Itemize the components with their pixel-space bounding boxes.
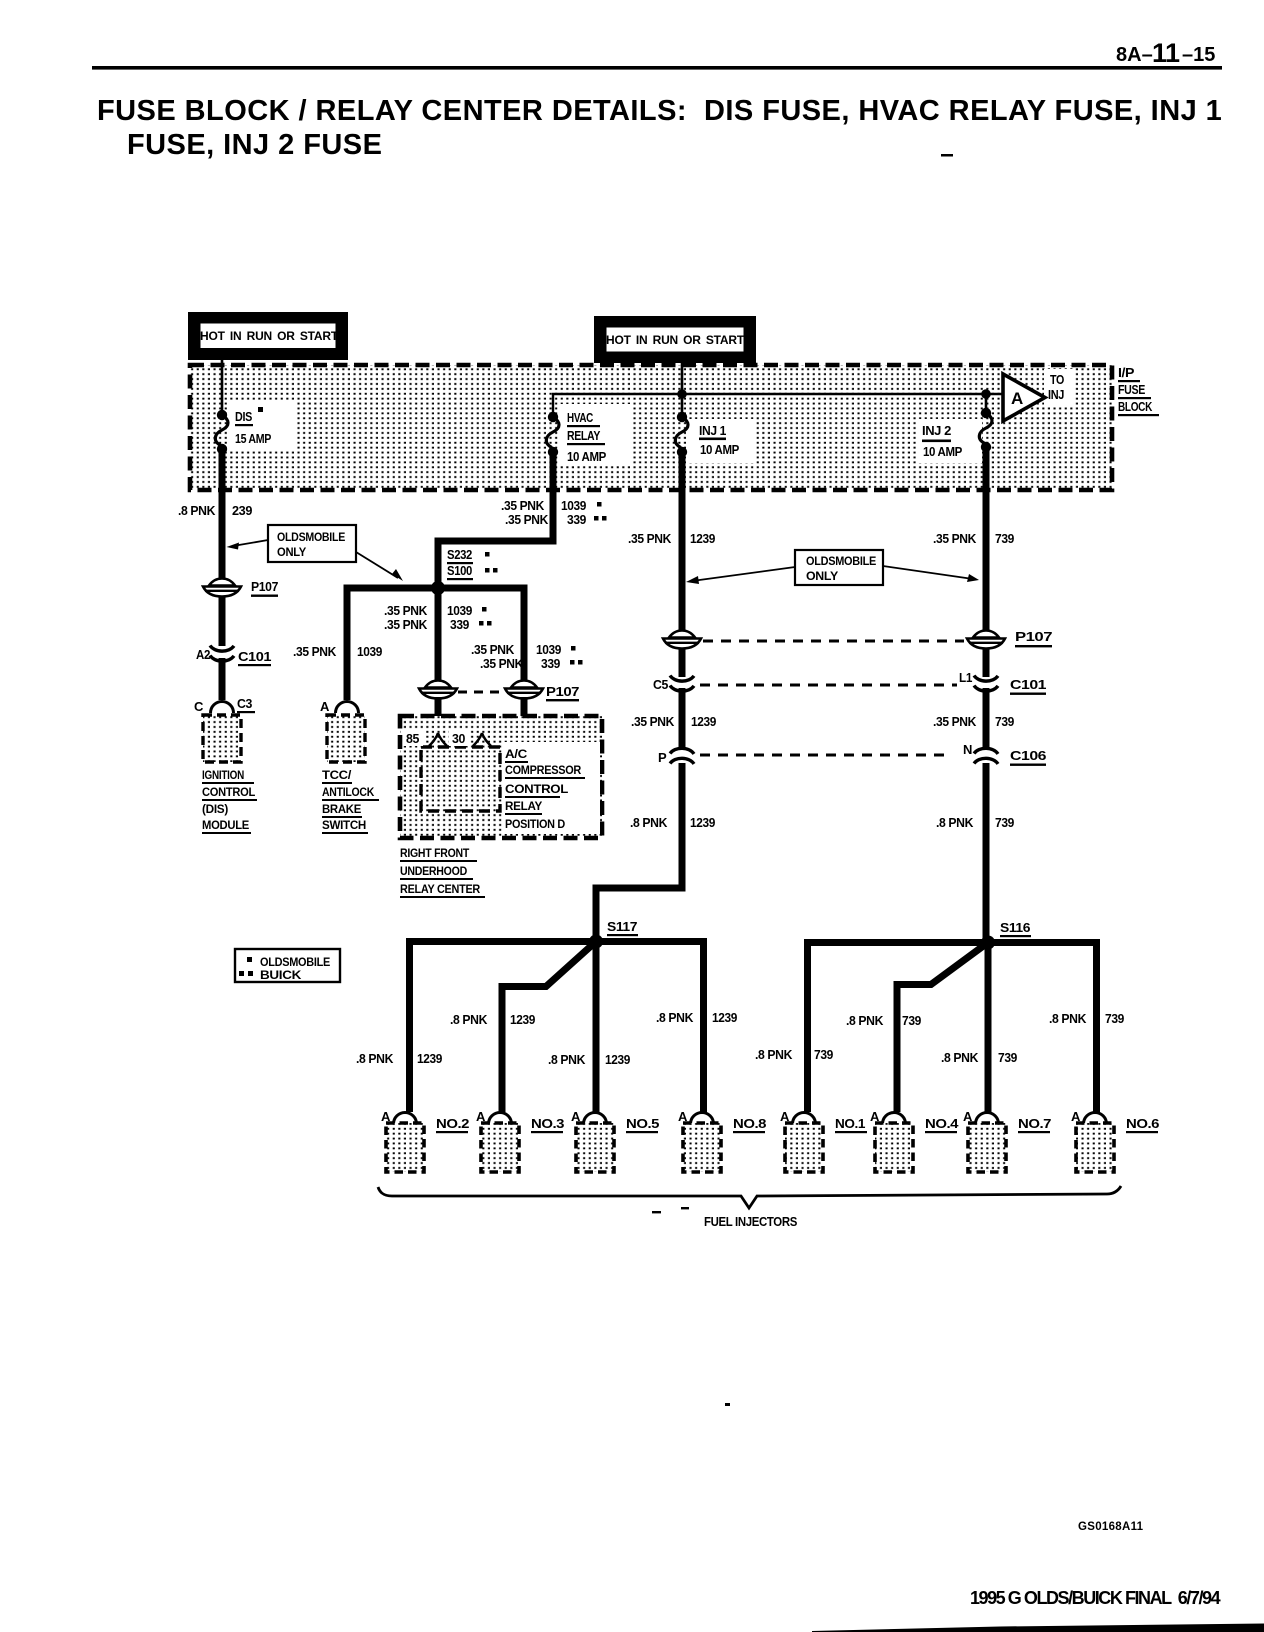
svg-text:1239: 1239 xyxy=(690,815,715,830)
svg-text:IGNITION: IGNITION xyxy=(202,768,244,782)
svg-text:739: 739 xyxy=(1105,1011,1124,1026)
svg-text:.8 PNK: .8 PNK xyxy=(630,815,668,830)
svg-text:A: A xyxy=(320,699,330,714)
injector no.6 xyxy=(1071,1109,1159,1172)
wire: INJ1 drop from hot box xyxy=(681,363,684,417)
wire: INJ1 C106 down with elbow to S117 xyxy=(596,763,682,938)
wire: S117 down to injector no.5 xyxy=(593,942,600,1113)
pin 85 fork xyxy=(403,729,447,746)
svg-text:10 AMP: 10 AMP xyxy=(700,442,740,457)
fuel injectors brace xyxy=(378,1186,1121,1229)
wire: INJ1 main wire xyxy=(679,452,686,646)
svg-text:A: A xyxy=(1011,389,1023,408)
svg-text:NO.4: NO.4 xyxy=(925,1116,959,1131)
svg-text:.35 PNK: .35 PNK xyxy=(480,656,524,671)
svg-text:TCC/: TCC/ xyxy=(322,768,352,782)
label I/P FUSE BLOCK xyxy=(1118,365,1159,416)
svg-text:P: P xyxy=(658,750,667,765)
legend oldsmobile/buick xyxy=(235,949,340,982)
svg-text:10 AMP: 10 AMP xyxy=(923,444,963,459)
wire: feed line from HVAC to triangle xyxy=(553,394,1003,416)
speck under title xyxy=(941,154,953,157)
svg-text:ANTILOCK: ANTILOCK xyxy=(322,785,375,799)
wire: S116 diagonal to injector no.4 xyxy=(897,943,988,1113)
svg-text:10 AMP: 10 AMP xyxy=(567,449,607,464)
svg-text:SWITCH: SWITCH xyxy=(322,818,366,832)
hot in run or start box left xyxy=(188,312,348,360)
svg-text:1239: 1239 xyxy=(417,1051,442,1066)
svg-text:INJ 2: INJ 2 xyxy=(922,423,951,438)
svg-text:I/P: I/P xyxy=(1118,365,1135,380)
P107 grommet row xyxy=(663,629,1052,649)
svg-text:1039: 1039 xyxy=(447,603,472,618)
svg-text:RIGHT FRONT: RIGHT FRONT xyxy=(400,846,470,860)
wire: grommet to pin 85 xyxy=(435,697,442,733)
wire: bus to injector no.1 xyxy=(804,943,811,1113)
svg-text:P107: P107 xyxy=(546,684,579,699)
svg-text:739: 739 xyxy=(995,714,1014,729)
injector no.1 xyxy=(780,1109,867,1172)
A/C relay text xyxy=(502,742,600,834)
wire: DIS drop from hot box xyxy=(221,360,224,415)
wire: HVAC wire below box with elbow to splice xyxy=(438,452,553,588)
wire: DIS wire C101 to module xyxy=(219,658,226,700)
label .8 PNK 1239 (no.5) xyxy=(548,1052,630,1067)
P107 grommet on DIS wire xyxy=(203,579,278,597)
svg-text:1995 G OLDS/BUICK FINAL 6/7/9: 1995 G OLDS/BUICK FINAL 6/7/94 xyxy=(970,1588,1221,1608)
ignition control module box xyxy=(202,715,257,834)
svg-text:1039: 1039 xyxy=(561,498,586,513)
label .8 PNK 1239 (INJ1 lower) xyxy=(630,815,715,830)
svg-text:C5: C5 xyxy=(653,677,668,692)
svg-text:A/C: A/C xyxy=(505,747,528,761)
white patches behind fuse labels xyxy=(228,402,294,450)
svg-text:.8 PNK: .8 PNK xyxy=(941,1050,979,1065)
wire: INJ1 P107 to C101 xyxy=(679,648,686,677)
hot in run or start box right xyxy=(594,316,756,363)
svg-text:UNDERHOOD: UNDERHOOD xyxy=(400,864,468,878)
label .35 PNK 1239 (INJ1 top) xyxy=(628,531,715,546)
wire: INJ2 tap xyxy=(985,394,988,413)
wire: bus to injector no.2 xyxy=(406,942,413,1113)
svg-text:NO.2: NO.2 xyxy=(436,1116,469,1131)
wire: DIS wire P107 to C101 xyxy=(219,597,226,646)
fuse INJ 2 10 AMP xyxy=(922,408,992,459)
svg-text:1039: 1039 xyxy=(536,642,561,657)
svg-text:FUSE BLOCK / RELAY CENTER DETA: FUSE BLOCK / RELAY CENTER DETAILS: DIS F… xyxy=(97,95,1222,127)
svg-text:11: 11 xyxy=(1152,38,1180,68)
label .8 PNK 1239 (no.8) xyxy=(656,1010,737,1025)
wire: S116 bus xyxy=(804,939,1100,946)
injector no.7 xyxy=(963,1109,1051,1172)
I/P fuse block dashed box xyxy=(190,365,1112,490)
svg-text:.35 PNK: .35 PNK xyxy=(628,531,672,546)
pin C / C3 into ignition module xyxy=(194,696,255,714)
svg-text:339: 339 xyxy=(541,656,560,671)
svg-text:NO.3: NO.3 xyxy=(531,1116,564,1131)
svg-text:POSITION D: POSITION D xyxy=(505,817,566,831)
svg-text:C101: C101 xyxy=(238,649,271,664)
label .8 PNK 739 (no.6) xyxy=(1049,1011,1124,1026)
svg-text:.35 PNK: .35 PNK xyxy=(631,714,675,729)
svg-text:OLDSMOBILE: OLDSMOBILE xyxy=(806,554,876,568)
svg-text:30: 30 xyxy=(452,731,465,746)
speck xyxy=(725,1403,730,1406)
TCC/antilock brake switch box xyxy=(322,715,379,834)
label .8 PNK 739 (no.1) xyxy=(755,1047,833,1062)
svg-text:1239: 1239 xyxy=(691,714,716,729)
A/C compressor control relay inner box xyxy=(421,747,500,811)
svg-text:NO.8: NO.8 xyxy=(733,1116,766,1131)
injector no.3 xyxy=(476,1109,564,1172)
svg-text:.8 PNK: .8 PNK xyxy=(1049,1011,1087,1026)
svg-text:739: 739 xyxy=(814,1047,833,1062)
svg-text:739: 739 xyxy=(998,1050,1017,1065)
svg-text:HOT IN RUN OR START: HOT IN RUN OR START xyxy=(606,333,745,347)
label .8 PNK 739 (INJ2 lower) xyxy=(936,815,1014,830)
injector no.5 xyxy=(571,1109,659,1172)
svg-text:FUSE: FUSE xyxy=(1118,382,1146,397)
svg-text:.35 PNK: .35 PNK xyxy=(501,498,545,513)
svg-text:FUEL INJECTORS: FUEL INJECTORS xyxy=(704,1214,798,1229)
wire: S117 bus xyxy=(406,938,707,945)
label .35 PNK 1239 (mid) xyxy=(631,714,716,729)
svg-text:GS0168A11: GS0168A11 xyxy=(1078,1521,1144,1533)
junction dot feed/INJ1 xyxy=(677,389,687,399)
injector no.4 xyxy=(870,1109,959,1172)
label .35 PNK 1039 xyxy=(293,644,382,659)
svg-text:S117: S117 xyxy=(607,919,637,934)
svg-text:739: 739 xyxy=(995,531,1014,546)
svg-text:C: C xyxy=(194,699,204,714)
svg-text:339: 339 xyxy=(567,512,586,527)
wire: S116 down to injector no.7 xyxy=(985,943,992,1113)
svg-text:C3: C3 xyxy=(237,696,252,711)
svg-text:INJ 1: INJ 1 xyxy=(699,423,726,438)
svg-text:BRAKE: BRAKE xyxy=(322,802,361,816)
fuse DIS 15 AMP xyxy=(215,407,271,454)
label .8 PNK 739 (no.7) xyxy=(941,1050,1017,1065)
svg-text:S232: S232 xyxy=(447,547,472,562)
svg-text:.8 PNK: .8 PNK xyxy=(656,1010,694,1025)
svg-text:HOT IN RUN OR START: HOT IN RUN OR START xyxy=(200,329,339,343)
wire: grommet to pin 30 jog xyxy=(482,697,524,733)
wire: bus to injector no.6 xyxy=(1093,943,1100,1113)
svg-text:739: 739 xyxy=(995,815,1014,830)
splice S116 xyxy=(981,920,1031,950)
svg-text:1239: 1239 xyxy=(712,1010,737,1025)
svg-text:BLOCK: BLOCK xyxy=(1118,399,1153,414)
page number 8A-11-15 xyxy=(1116,38,1215,68)
splice S232/S100 xyxy=(431,547,498,595)
svg-text:15 AMP: 15 AMP xyxy=(235,431,272,446)
svg-text:FUSE, INJ 2 FUSE: FUSE, INJ 2 FUSE xyxy=(127,129,382,161)
svg-text:L1: L1 xyxy=(959,670,972,685)
svg-text:DIS: DIS xyxy=(235,409,253,424)
wire: INJ1 C101 to C106 xyxy=(679,688,686,748)
triangle A to INJ xyxy=(1003,372,1064,421)
svg-text:85: 85 xyxy=(406,731,419,746)
connector C5 / L1 C101 row xyxy=(653,670,1046,695)
svg-text:NO.5: NO.5 xyxy=(626,1116,659,1131)
label .35 PNK 1039* / 339** (right branch) xyxy=(471,642,583,671)
svg-text:–15: –15 xyxy=(1182,44,1215,66)
svg-text:.35 PNK: .35 PNK xyxy=(505,512,549,527)
svg-text:.8 PNK: .8 PNK xyxy=(936,815,974,830)
svg-text:RELAY: RELAY xyxy=(505,799,542,813)
svg-text:ONLY: ONLY xyxy=(806,569,838,583)
svg-text:CONTROL: CONTROL xyxy=(505,782,568,796)
label .8 PNK 739 (no.4) xyxy=(846,1013,921,1028)
wire: splice right branch to relay pin 30 xyxy=(438,588,524,686)
svg-text:CONTROL: CONTROL xyxy=(202,785,255,799)
svg-text:OLDSMOBILE: OLDSMOBILE xyxy=(277,530,345,544)
injector no.2 xyxy=(381,1109,469,1172)
svg-text:NO.1: NO.1 xyxy=(835,1116,865,1131)
svg-text:1239: 1239 xyxy=(690,531,715,546)
splice S117 xyxy=(589,919,638,949)
svg-text:.8 PNK: .8 PNK xyxy=(356,1051,394,1066)
label .35 PNK 1039* / .35 PNK 339** xyxy=(501,498,607,527)
P107 grommet pair above relay xyxy=(419,681,579,702)
label .8 PNK 1239 (no.2) xyxy=(356,1051,442,1066)
svg-text:OLDSMOBILE: OLDSMOBILE xyxy=(260,955,330,969)
label .8 PNK 239 xyxy=(178,503,252,518)
label .35 PNK 739 (mid) xyxy=(933,714,1014,729)
svg-text:BUICK: BUICK xyxy=(260,968,302,982)
wire: splice left branch to TCC xyxy=(347,588,438,700)
svg-text:8A–: 8A– xyxy=(1116,44,1153,66)
svg-text:MODULE: MODULE xyxy=(202,818,249,832)
svg-text:1239: 1239 xyxy=(605,1052,630,1067)
right front underhood relay center label xyxy=(400,846,485,898)
svg-text:.8 PNK: .8 PNK xyxy=(450,1012,488,1027)
bottom edge scan line xyxy=(812,1624,1264,1632)
svg-text:1239: 1239 xyxy=(510,1012,535,1027)
svg-text:HVAC: HVAC xyxy=(567,410,594,425)
right front underhood relay center box xyxy=(400,716,602,838)
svg-text:739: 739 xyxy=(902,1013,921,1028)
svg-text:RELAY: RELAY xyxy=(567,428,601,443)
svg-text:.35 PNK: .35 PNK xyxy=(293,644,337,659)
svg-text:.35 PNK: .35 PNK xyxy=(933,714,977,729)
wire: INJ2 C106 down to S116 xyxy=(983,763,990,942)
svg-text:C106: C106 xyxy=(1010,748,1046,763)
svg-text:239: 239 xyxy=(232,503,252,518)
svg-text:1039: 1039 xyxy=(357,644,382,659)
connector P / N C106 row xyxy=(658,742,1046,766)
wire: S117 diagonal to injector no.3 xyxy=(502,942,596,1113)
svg-text:RELAY CENTER: RELAY CENTER xyxy=(400,882,481,896)
fuse INJ 1 10 AMP xyxy=(675,412,739,457)
junction dot feed/INJ2 xyxy=(981,389,991,399)
wire: bus to injector no.8 xyxy=(700,942,707,1113)
svg-text:.35 PNK: .35 PNK xyxy=(384,603,428,618)
svg-text:INJ: INJ xyxy=(1048,387,1064,402)
label .35 PNK 739 (INJ2 top) xyxy=(933,531,1014,546)
pin A into TCC switch xyxy=(320,699,359,714)
injector no.8 xyxy=(678,1109,766,1172)
svg-text:.35 PNK: .35 PNK xyxy=(384,617,428,632)
svg-text:.8 PNK: .8 PNK xyxy=(846,1013,884,1028)
svg-text:.8 PNK: .8 PNK xyxy=(548,1052,586,1067)
svg-text:.8 PNK: .8 PNK xyxy=(178,503,216,518)
svg-text:339: 339 xyxy=(450,617,469,632)
svg-text:(DIS): (DIS) xyxy=(202,802,228,816)
header rule xyxy=(92,66,1222,70)
svg-text:A2: A2 xyxy=(196,647,210,662)
label .35 PNK 1039* / 339** (below splice) xyxy=(384,603,492,632)
fuse HVAC RELAY 10 AMP xyxy=(546,410,606,464)
connector A2 C101 on DIS wire xyxy=(196,646,271,667)
svg-text:N: N xyxy=(963,742,972,757)
wire: INJ2 main wire xyxy=(983,447,990,646)
svg-text:S116: S116 xyxy=(1000,920,1030,935)
svg-text:ONLY: ONLY xyxy=(277,545,306,559)
svg-text:COMPRESSOR: COMPRESSOR xyxy=(505,763,582,777)
wire: INJ2 P107 to C101 xyxy=(983,648,990,677)
pin 30 fork xyxy=(449,729,491,746)
svg-text:.35 PNK: .35 PNK xyxy=(933,531,977,546)
svg-text:NO.6: NO.6 xyxy=(1126,1116,1159,1131)
svg-text:.8 PNK: .8 PNK xyxy=(755,1047,793,1062)
label .8 PNK 1239 (no.3) xyxy=(450,1012,535,1027)
svg-text:.35 PNK: .35 PNK xyxy=(471,642,515,657)
wire: DIS wire below fuse xyxy=(219,449,226,581)
wire: splice down branch to relay pin 85 xyxy=(435,588,442,686)
svg-text:C101: C101 xyxy=(1010,677,1046,692)
wire: INJ2 C101 to C106 xyxy=(983,688,990,748)
svg-text:TO: TO xyxy=(1050,372,1064,387)
svg-text:NO.7: NO.7 xyxy=(1018,1116,1051,1131)
svg-text:S100: S100 xyxy=(447,563,472,578)
svg-text:P107: P107 xyxy=(1015,629,1052,644)
oldsmobile only callout left xyxy=(227,525,404,581)
oldsmobile only callout right xyxy=(686,550,979,585)
svg-text:P107: P107 xyxy=(251,579,278,594)
